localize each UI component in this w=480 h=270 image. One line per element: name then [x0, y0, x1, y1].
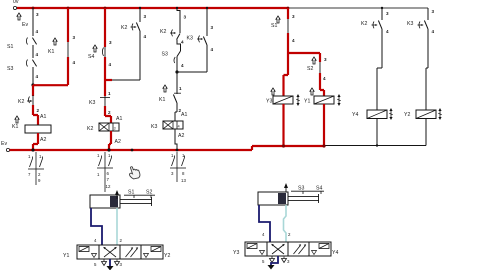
label Ev with arrow top-left — [17, 13, 29, 28]
wire rung6 red upper — [287, 8, 289, 19]
node junction rung1/rung2 — [31, 83, 34, 86]
node junction rung3/rung K2branch — [105, 79, 112, 81]
svg-text:Y1: Y1 — [304, 99, 310, 105]
svg-text:4: 4 — [181, 40, 184, 45]
svg-text:Y3: Y3 — [233, 250, 239, 256]
svg-text:Y4: Y4 — [332, 250, 338, 256]
svg-text:4: 4 — [178, 125, 180, 129]
contact K3 NO open — [407, 21, 428, 30]
solenoid pilot Y4 right — [309, 242, 338, 256]
svg-text:A2: A2 — [115, 139, 121, 145]
svg-text:3: 3 — [432, 9, 435, 14]
wire rung7 red lower — [320, 73, 324, 96]
svg-text:1: 1 — [179, 86, 182, 91]
contact K3 NC closed — [89, 91, 111, 115]
solenoid pilot Y3 left — [233, 242, 267, 256]
switch S3 NO open on rung4 — [162, 51, 181, 63]
wire rung140 — [139, 8, 141, 22]
wire rung1 coil to 0V — [33, 133, 38, 150]
cylinder 2A — [258, 192, 319, 205]
svg-text:K2: K2 — [361, 21, 367, 27]
wire rung5 upper — [206, 8, 208, 36]
svg-text:S3: S3 — [298, 186, 304, 192]
valve V1 5/2 body — [99, 245, 141, 259]
svg-text:Ev: Ev — [1, 141, 7, 147]
svg-text:3: 3 — [211, 25, 214, 30]
svg-text:Y3: Y3 — [266, 99, 272, 105]
switch S3 NO open — [7, 60, 37, 73]
svg-text:Y2: Y2 — [164, 253, 170, 259]
cylinder 1A — [90, 195, 152, 208]
wire rung1 mid — [32, 45, 34, 58]
svg-text:S4: S4 — [316, 186, 322, 192]
node junction rung4/rung5 — [175, 70, 178, 73]
solenoid pilot Y2 right — [141, 245, 170, 259]
svg-text:12: 12 — [106, 184, 111, 189]
pipe blue cyl2 cap side — [259, 205, 270, 242]
exhaust port 5 — [94, 259, 107, 267]
svg-text:3: 3 — [114, 127, 116, 131]
wire rung3 red upper — [104, 8, 106, 47]
wire rung3 coil K2 to 0V — [109, 131, 111, 150]
contact K1 NC open — [159, 85, 182, 113]
pressure source port 1 — [268, 256, 279, 270]
wire rung9 upper — [427, 8, 429, 20]
wire rung5 lower — [206, 45, 208, 72]
valve V2 5/2 body — [267, 242, 309, 256]
wire bottom rail red — [10, 146, 325, 150]
svg-text:3: 3 — [73, 35, 76, 40]
svg-text:S1: S1 — [128, 190, 134, 196]
node rail junctions — [32, 7, 384, 10]
node +24V terminal — [13, 6, 16, 9]
svg-text:3: 3 — [292, 14, 295, 19]
svg-text:3: 3 — [144, 14, 147, 19]
contact table K3 — [170, 152, 186, 182]
wire rung4 upper — [177, 8, 180, 33]
svg-text:1: 1 — [108, 91, 111, 96]
switch S4 closed — [88, 45, 105, 60]
wire rung6 down to Y3 — [284, 53, 289, 96]
wire rung4 mid1 — [177, 40, 181, 52]
contact K1 closed — [48, 38, 68, 57]
wire rung4 mid3 — [176, 72, 178, 94]
wire rung1 lower — [32, 67, 34, 85]
wire rung2 red upper — [67, 8, 69, 42]
svg-text:S3: S3 — [162, 52, 168, 58]
svg-text:S4: S4 — [88, 54, 94, 60]
wire rung1 red to coil — [33, 105, 38, 125]
wire rung8 upper — [381, 8, 383, 20]
relay coil K3 — [151, 121, 183, 130]
svg-text:3: 3 — [386, 11, 389, 16]
svg-text:A1: A1 — [116, 116, 122, 122]
pipe cyan cyl2 rod side — [284, 205, 287, 242]
exhaust port 3 — [282, 256, 291, 264]
svg-text:K2: K2 — [160, 29, 166, 35]
svg-text:K3: K3 — [187, 36, 193, 42]
svg-text:S2: S2 — [146, 190, 152, 196]
wire rung9 lower — [426, 29, 428, 110]
svg-text:4: 4 — [292, 38, 295, 43]
svg-text:4: 4 — [181, 63, 184, 68]
svg-text:A2: A2 — [178, 133, 184, 139]
wire top rail right black — [288, 7, 428, 9]
wire rung3 red to coil K2 — [105, 106, 111, 123]
svg-text:K2: K2 — [87, 126, 93, 132]
svg-text:4: 4 — [36, 74, 39, 79]
svg-text:Y4: Y4 — [352, 112, 358, 118]
contact K2 NO open — [160, 29, 180, 40]
svg-text:4: 4 — [144, 34, 147, 39]
solenoid Y2 — [404, 108, 442, 120]
solenoid Y1 — [304, 88, 341, 106]
wire rung4 mid2 — [176, 57, 178, 73]
svg-text:2: 2 — [37, 108, 40, 113]
contact K2 NO open — [361, 21, 382, 30]
svg-text:A2: A2 — [40, 137, 46, 143]
wire rung8 lower — [377, 29, 382, 110]
contact K2 closed on rung1 — [18, 95, 33, 105]
wire rung4 coil to 0V — [175, 129, 177, 150]
wire top supply rail red — [17, 7, 288, 9]
svg-text:4: 4 — [323, 76, 326, 81]
svg-text:K3: K3 — [407, 21, 413, 27]
svg-text:K3: K3 — [151, 124, 157, 130]
node rail dots — [31, 144, 378, 151]
pipe blue cyl1 cap side — [91, 208, 102, 245]
switch S2 closed — [307, 57, 320, 73]
solenoid Y4 — [352, 108, 393, 120]
wire Y3 to 0V — [282, 104, 284, 146]
svg-text:4: 4 — [36, 29, 39, 34]
wire rung140 lower — [139, 31, 141, 80]
solenoid pilot Y1 left — [63, 245, 99, 259]
wire bottom rail black right — [325, 119, 426, 146]
svg-text:Y2: Y2 — [404, 112, 410, 118]
solenoid Y3 — [266, 88, 300, 106]
svg-text:3: 3 — [184, 15, 187, 20]
svg-text:3: 3 — [324, 57, 327, 62]
svg-text:4: 4 — [36, 52, 39, 57]
switch S1 NO open — [7, 38, 37, 51]
wire rung7 red upper — [319, 53, 321, 62]
wire black from K2-branch — [112, 79, 140, 81]
wire Y1 to 0V — [323, 104, 325, 146]
wire rung1 upper — [32, 8, 34, 36]
svg-text:K1: K1 — [159, 97, 165, 103]
wire link rung5 to rung4 — [177, 71, 207, 73]
relay coil K2 — [87, 123, 119, 132]
wire rung1 red below junction — [32, 85, 34, 96]
contact K3 NO open — [187, 36, 208, 46]
piston position pointer — [284, 183, 288, 188]
svg-text:3: 3 — [36, 12, 39, 17]
node 0V terminal — [6, 148, 9, 151]
svg-text:4: 4 — [386, 29, 389, 34]
svg-text:K2: K2 — [18, 99, 24, 105]
svg-text:2: 2 — [108, 110, 111, 115]
pressure source port 1 — [107, 259, 114, 270]
svg-text:4: 4 — [432, 29, 435, 34]
svg-text:K1: K1 — [48, 49, 54, 55]
exhaust port 3 — [115, 259, 123, 267]
svg-text:3: 3 — [109, 40, 112, 45]
svg-text:K3: K3 — [89, 100, 95, 106]
svg-text:Ev: Ev — [22, 22, 28, 28]
wire rung2 red lower — [67, 57, 69, 85]
svg-text:K2: K2 — [121, 25, 127, 31]
exhaust port 5 — [262, 256, 275, 264]
contact table K1 — [28, 152, 44, 185]
svg-text:A1: A1 — [181, 112, 187, 118]
piston position pointer — [115, 190, 119, 195]
wire red link to K1 contact branch — [33, 84, 68, 86]
svg-text:4: 4 — [211, 47, 214, 52]
svg-text:4: 4 — [73, 60, 76, 65]
ruler S1 S2 — [124, 190, 155, 199]
wire Y2 to 0V — [425, 119, 427, 146]
wire red T branch — [288, 52, 320, 54]
ruler S3 S4 — [291, 186, 324, 195]
contact table K2 — [97, 152, 113, 192]
svg-text:S1: S1 — [7, 44, 13, 50]
svg-text:4: 4 — [109, 62, 112, 67]
wire rung4 to coil K3 — [175, 103, 177, 121]
svg-text:K1: K1 — [12, 124, 18, 130]
svg-text:A1: A1 — [40, 114, 46, 120]
wire Y4 to 0V — [376, 119, 378, 146]
svg-text:0v: 0v — [13, 0, 19, 5]
switch S1 closed — [271, 16, 288, 33]
svg-text:Y1: Y1 — [63, 253, 69, 259]
svg-text:S2: S2 — [307, 66, 313, 72]
wire rung6 red lower — [287, 33, 289, 53]
contact K2 NO open — [121, 23, 140, 32]
svg-text:S1: S1 — [271, 23, 277, 29]
wire rung3 red mid — [104, 57, 106, 96]
hand cursor icon — [127, 165, 141, 180]
pipe cyan cyl1 rod side — [116, 208, 118, 245]
relay coil K1 — [12, 116, 51, 133]
svg-text:S3: S3 — [7, 66, 13, 72]
svg-text:13: 13 — [181, 178, 186, 183]
